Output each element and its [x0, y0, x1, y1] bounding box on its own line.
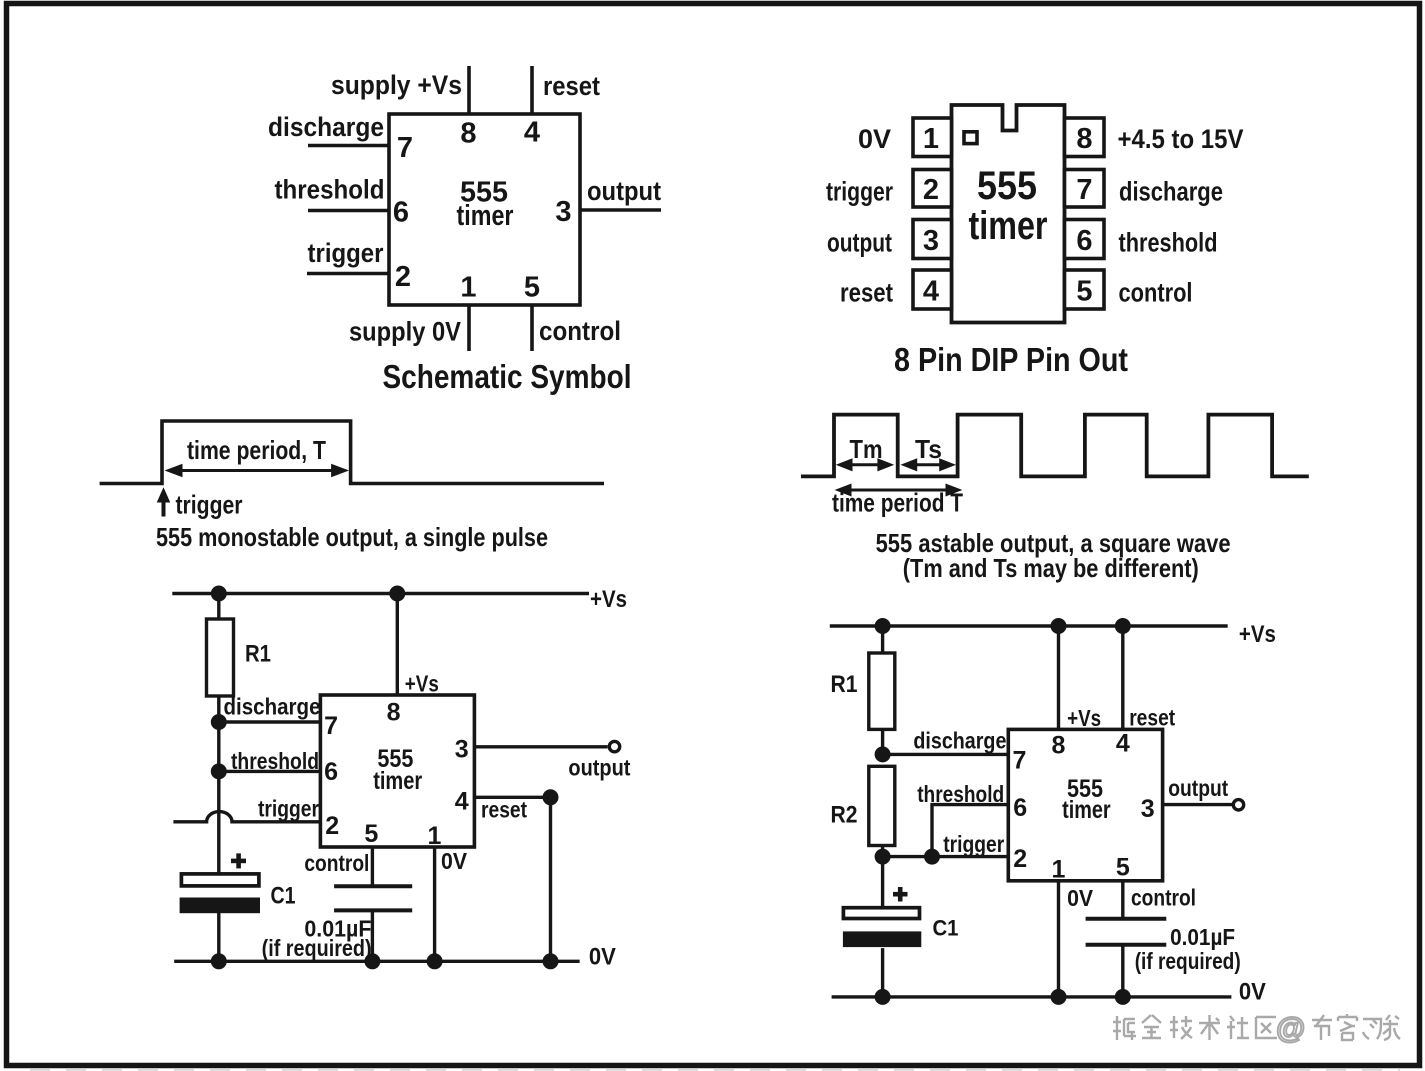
time period arrow	[166, 465, 348, 477]
watermark glyph LONG	[1383, 1015, 1400, 1040]
svg-text:reset: reset	[543, 71, 600, 101]
svg-text:3: 3	[555, 196, 571, 228]
svg-text:control: control	[304, 850, 369, 876]
wire trigger node to pin 2	[883, 855, 1009, 858]
svg-text:6: 6	[1013, 794, 1027, 822]
wire pin 3 to output terminal	[1163, 803, 1232, 806]
svg-text:Ts: Ts	[915, 434, 942, 464]
svg-text:6: 6	[1076, 225, 1092, 257]
0V rail	[832, 995, 1232, 998]
svg-text:threshold: threshold	[917, 781, 1004, 807]
svg-text:timer: timer	[457, 200, 514, 232]
node junction rail pin4	[1115, 618, 1131, 634]
svg-text:timer: timer	[969, 204, 1048, 248]
svg-text:(if required): (if required)	[262, 935, 372, 961]
wire rail to R1	[881, 626, 884, 653]
svg-text:output: output	[827, 228, 892, 258]
svg-text:trigger: trigger	[176, 490, 243, 520]
node junction rail R1	[875, 618, 891, 634]
svg-text:2: 2	[1013, 845, 1027, 873]
svg-text:time period, T: time period, T	[187, 435, 326, 465]
+Vs rail	[172, 592, 589, 595]
bottom edge scan artifacts	[30, 1069, 1400, 1071]
pin 8 stub (supply +Vs)	[467, 66, 471, 114]
op-amp U1 555 timer schematic symbol box	[389, 114, 580, 305]
wire discharge to pin 7	[219, 720, 321, 723]
svg-text:7: 7	[1076, 174, 1092, 206]
svg-text:4: 4	[923, 276, 939, 308]
svg-text:3: 3	[455, 736, 469, 764]
capacitor 0.01uF bottom bar	[334, 908, 412, 912]
svg-text:time period T: time period T	[832, 488, 963, 518]
svg-text:3: 3	[923, 225, 939, 257]
wire trigger node down to C1	[881, 857, 884, 908]
svg-text:trigger: trigger	[308, 238, 384, 268]
pin 3 box	[913, 220, 952, 259]
node C1 on rail	[211, 953, 227, 969]
capacitor 0.01uF top bar	[334, 884, 412, 888]
svg-text:0V: 0V	[589, 944, 616, 971]
wire threshold node down to C1 (passes under trigger hump)	[217, 771, 220, 873]
svg-text:control: control	[1131, 885, 1196, 911]
wire C1 to 0V rail	[881, 948, 884, 997]
svg-text:2: 2	[325, 812, 339, 840]
svg-text:supply +Vs: supply +Vs	[331, 70, 462, 100]
pin 6 wire (threshold)	[308, 209, 389, 212]
svg-text:discharge: discharge	[913, 728, 1006, 754]
svg-text:threshold: threshold	[275, 175, 385, 205]
wire R2 to trigger node	[881, 846, 884, 857]
svg-text:6: 6	[393, 197, 409, 229]
wire rail to R1	[217, 594, 220, 620]
svg-text:555 monostable output, a singl: 555 monostable output, a single pulse	[156, 522, 548, 552]
pin 2 wire (trigger)	[307, 272, 389, 275]
svg-text:+Vs: +Vs	[590, 586, 627, 613]
capacitor 0.01uF bottom bar	[1086, 943, 1167, 947]
svg-text:discharge: discharge	[268, 112, 384, 142]
wire discharge to pin 7	[883, 753, 1009, 756]
svg-text:4: 4	[1116, 730, 1130, 758]
svg-text:reset: reset	[481, 797, 527, 823]
capacitor 0.01uF top bar	[1086, 917, 1167, 921]
monostable output pulse waveform	[100, 421, 604, 484]
svg-text:reset: reset	[1129, 705, 1175, 731]
pin 2 box	[913, 170, 952, 208]
svg-text:trigger: trigger	[258, 796, 319, 822]
svg-text:supply 0V: supply 0V	[349, 317, 461, 347]
watermark glyph SHE	[1227, 1016, 1249, 1039]
svg-text:+Vs: +Vs	[405, 671, 439, 697]
svg-text:7: 7	[1013, 747, 1027, 775]
pin 4 stub (reset)	[530, 66, 534, 114]
node control cap on rail	[1115, 989, 1131, 1005]
watermark glyph BU	[1312, 1015, 1332, 1040]
svg-text:control: control	[539, 316, 621, 346]
svg-text:8: 8	[460, 118, 476, 150]
svg-text:3: 3	[1141, 795, 1155, 823]
pin 3 wire (output)	[580, 208, 661, 211]
resistor R1	[207, 619, 234, 696]
node control cap on rail	[364, 953, 380, 969]
svg-text:7: 7	[397, 132, 413, 164]
watermark glyph QU	[1256, 1017, 1277, 1038]
svg-text:4: 4	[455, 788, 469, 816]
svg-text:5: 5	[1116, 854, 1130, 882]
svg-text:C1: C1	[933, 916, 959, 941]
svg-text:discharge: discharge	[1119, 177, 1223, 207]
svg-text:output: output	[568, 755, 630, 781]
capacitor C1 top plate	[843, 908, 919, 919]
time period T arrow	[836, 484, 961, 496]
svg-text:output: output	[1168, 775, 1228, 801]
svg-text:1: 1	[1052, 856, 1066, 884]
svg-text:8 Pin DIP Pin Out: 8 Pin DIP Pin Out	[894, 341, 1128, 378]
svg-text:output: output	[587, 176, 661, 206]
svg-text:1: 1	[460, 272, 476, 304]
wire control cap to rail	[1121, 945, 1124, 997]
IC body 555 timer DIP package	[952, 105, 1065, 323]
node discharge junction	[875, 746, 891, 762]
pin 1 orientation marker	[964, 132, 977, 144]
wire R1 to discharge node	[217, 696, 220, 722]
wire threshold to pin 6	[219, 770, 321, 773]
svg-text:+Vs: +Vs	[1239, 621, 1276, 648]
svg-text:0.01µF: 0.01µF	[1170, 924, 1235, 950]
svg-text:threshold: threshold	[231, 748, 319, 774]
svg-text:R1: R1	[831, 671, 858, 698]
watermark glyph JU	[1113, 1016, 1136, 1040]
svg-text:0V: 0V	[1239, 979, 1266, 1006]
watermark glyph KE	[1338, 1014, 1357, 1040]
svg-text:+Vs: +Vs	[1067, 705, 1101, 731]
wire C1 to 0V rail	[217, 913, 220, 961]
svg-text:555: 555	[977, 164, 1037, 208]
wire pin 3 to output terminal	[474, 745, 607, 748]
svg-text:8: 8	[1076, 123, 1092, 155]
svg-text:R1: R1	[245, 641, 271, 668]
svg-text:timer: timer	[1062, 796, 1111, 824]
astable square wave	[801, 415, 1309, 477]
Ts arrow	[902, 459, 955, 471]
wire pin 5 to control capacitor	[371, 847, 374, 886]
svg-text:5: 5	[1076, 276, 1092, 308]
capacitor C1 plus sign	[231, 853, 246, 868]
0V rail	[174, 960, 579, 963]
watermark glyph FEI	[1363, 1019, 1381, 1039]
svg-text:trigger: trigger	[943, 831, 1004, 857]
capacitor C1 plus sign	[893, 887, 908, 902]
svg-text:@: @	[1276, 1012, 1305, 1045]
capacitor C1 bottom plate	[843, 931, 921, 947]
wire rail to pin 4	[1121, 626, 1124, 729]
node junction on rail (pin8)	[389, 586, 405, 602]
node below R2	[875, 849, 891, 865]
resistor R2	[869, 766, 895, 845]
wire rail to pin 8	[1057, 626, 1060, 729]
pin 1 stub (supply 0V)	[467, 305, 471, 351]
svg-text:4: 4	[524, 117, 540, 149]
resistor R1	[869, 653, 895, 729]
svg-text:trigger: trigger	[826, 177, 893, 207]
node junction on rail (R1)	[211, 586, 227, 602]
wire discharge node down to threshold node	[217, 722, 220, 771]
capacitor C1 bottom plate	[180, 898, 260, 914]
wire rail to pin 8	[396, 594, 399, 696]
wire reset node down to 0V rail	[549, 797, 552, 961]
+Vs rail	[830, 624, 1228, 627]
watermark glyph JI	[1170, 1016, 1192, 1039]
node C1 on rail	[875, 989, 891, 1005]
node discharge junction	[211, 714, 227, 730]
node pin1 on rail	[1051, 989, 1067, 1005]
capacitor C1 top plate	[181, 874, 259, 886]
svg-text:reset: reset	[840, 278, 893, 308]
svg-text:5: 5	[524, 272, 540, 304]
wire R1 to discharge node	[881, 729, 884, 754]
pin 8 box	[1065, 118, 1105, 157]
node reset on rail	[543, 953, 559, 969]
output terminal circle	[1233, 800, 1243, 810]
wire pin 5 to control cap	[1121, 881, 1124, 919]
threshold wire up and to pin 6	[932, 805, 1008, 857]
wire pin 1 to 0V rail	[433, 847, 436, 961]
node trigger junction	[924, 849, 940, 865]
svg-text:R2: R2	[831, 802, 858, 829]
svg-text:(Tm and Ts may be different): (Tm and Ts may be different)	[903, 553, 1199, 583]
svg-text:6: 6	[324, 758, 338, 786]
node reset junction	[543, 789, 559, 805]
node junction rail pin8	[1051, 618, 1067, 634]
svg-text:2: 2	[923, 174, 939, 206]
svg-text:control: control	[1119, 278, 1193, 308]
svg-text:7: 7	[324, 712, 338, 740]
svg-text:8: 8	[387, 699, 401, 727]
node pin1 on rail	[427, 953, 443, 969]
wire control cap to 0V rail	[371, 910, 374, 961]
pin 7 box	[1065, 170, 1105, 208]
svg-text:C1: C1	[271, 883, 296, 910]
op-amp U2 555 timer box (monostable)	[320, 695, 474, 847]
op-amp U3 555 timer box (astable)	[1008, 729, 1162, 880]
pin 7 wire (discharge)	[308, 144, 389, 147]
watermark glyph JIN	[1142, 1015, 1161, 1038]
svg-text:0V: 0V	[441, 848, 468, 874]
watermark glyph SHU	[1199, 1015, 1220, 1040]
svg-text:timer: timer	[373, 767, 422, 795]
svg-text:Schematic Symbol: Schematic Symbol	[383, 358, 632, 395]
trigger wire with hump	[173, 812, 320, 822]
pin 5 box	[1065, 270, 1105, 309]
svg-text:(if required): (if required)	[1135, 948, 1241, 974]
svg-text:0V: 0V	[858, 124, 891, 154]
node threshold junction	[211, 763, 227, 779]
svg-text:1: 1	[923, 123, 939, 155]
pin 5 stub (control)	[530, 305, 534, 351]
svg-text:8: 8	[1052, 732, 1066, 760]
svg-text:5: 5	[364, 820, 378, 848]
wire pin 1 to 0V rail	[1057, 881, 1060, 997]
wire pin 4 to reset node	[474, 796, 550, 799]
pin 1 box	[913, 118, 952, 157]
svg-text:threshold: threshold	[1119, 228, 1218, 258]
output terminal circle	[609, 741, 619, 751]
svg-text:1: 1	[428, 822, 442, 850]
pin 6 box	[1065, 220, 1105, 259]
trigger up arrow	[158, 489, 170, 517]
svg-text:2: 2	[395, 261, 411, 293]
pin 4 box	[913, 270, 952, 309]
svg-text:0V: 0V	[1067, 885, 1094, 911]
svg-text:discharge: discharge	[224, 694, 321, 720]
svg-text:+4.5 to 15V: +4.5 to 15V	[1118, 124, 1244, 154]
Tm arrow	[837, 459, 893, 471]
